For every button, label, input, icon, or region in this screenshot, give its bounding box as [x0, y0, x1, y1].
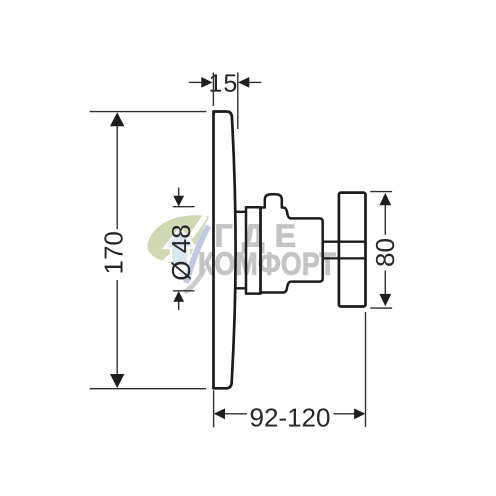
svg-text:15: 15: [208, 70, 238, 98]
svg-text:КОМФОРТ: КОМФОРТ: [198, 246, 336, 282]
svg-text:80: 80: [370, 238, 400, 267]
svg-text:92-120: 92-120: [250, 402, 331, 432]
svg-text:170: 170: [98, 231, 128, 274]
svg-text:Ø 48: Ø 48: [166, 224, 196, 280]
